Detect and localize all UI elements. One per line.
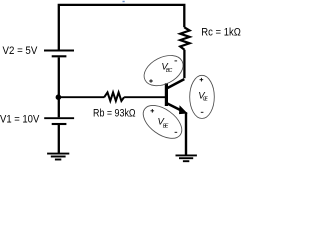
svg-text:Rb = 93kΩ: Rb = 93kΩ	[93, 107, 136, 119]
svg-text:CE: CE	[203, 97, 209, 103]
svg-text:V1 = 10V: V1 = 10V	[0, 114, 40, 126]
svg-text:BC: BC	[166, 68, 173, 74]
svg-text:BE: BE	[163, 124, 169, 130]
svg-text:V2 = 5V: V2 = 5V	[3, 45, 38, 57]
svg-text:Rc = 1kΩ: Rc = 1kΩ	[201, 26, 241, 38]
